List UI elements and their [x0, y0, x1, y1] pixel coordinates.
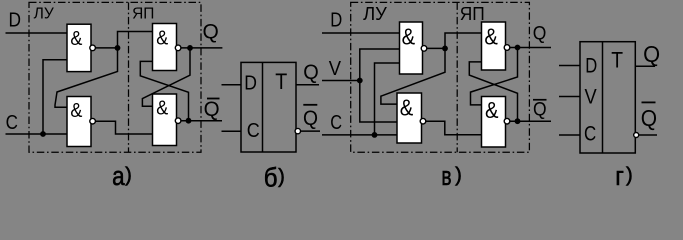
wire junction down diagonal to gate D1.2 input (a)	[55, 48, 118, 107]
svg-text:): )	[278, 166, 285, 188]
svg-text:D: D	[330, 8, 342, 31]
dashed box LU/YaP circuit v	[351, 2, 530, 152]
svg-text:V: V	[585, 85, 598, 109]
svg-text:&: &	[70, 28, 83, 50]
wire gate D1.2 output to gate D2.2 input (v)	[426, 121, 482, 135]
node Qbar (g)	[641, 102, 657, 132]
svg-text:T: T	[275, 69, 287, 94]
wire junction up to gate D2.1 input (v)	[445, 33, 482, 48]
junction C branch (v)	[372, 132, 378, 138]
wire C to gate D1.1 input 3 (v)	[375, 63, 400, 135]
wire junction down diagonal to gate D1.2 input (v)	[381, 48, 445, 104]
svg-text:D: D	[9, 9, 22, 32]
wire D input (a)	[6, 32, 68, 34]
dashed divider LU/YaP circuit v	[456, 2, 458, 152]
junction Qbar (v)	[515, 118, 521, 124]
svg-text:): )	[455, 165, 462, 187]
node Qbar (a)	[204, 97, 220, 121]
wire gate D1.1 output to junction (v)	[427, 47, 445, 49]
svg-text:Q: Q	[303, 60, 319, 84]
dashed box LU/YaP circuit a	[29, 2, 201, 152]
wire junction up to gate D2.1 input (a)	[118, 32, 153, 48]
nand gate D1.2 (v, LU bottom)	[397, 93, 426, 143]
wire Qbar cross-coupling to gate D2.1 input (a)	[140, 61, 188, 120]
svg-text:V: V	[329, 57, 342, 80]
svg-text:Q: Q	[204, 97, 220, 121]
svg-text:а: а	[112, 161, 125, 191]
svg-text:&: &	[485, 97, 499, 123]
svg-text:&: &	[70, 100, 83, 122]
wire gate D2.2 output to Qbar (v)	[510, 120, 551, 122]
wire Qbar output stub (b)	[301, 130, 321, 132]
wire Q cross-coupling to gate D2.2 input (a)	[142, 48, 190, 106]
svg-text:Q: Q	[533, 23, 547, 45]
nand gate D2.1 (a, YaP top)	[153, 24, 181, 71]
svg-text:T: T	[611, 48, 623, 73]
svg-text:&: &	[156, 28, 169, 50]
wire gate D2.2 output to Qbar (a)	[181, 120, 222, 122]
nand gate D2.2 (v, YaP bottom)	[482, 97, 510, 148]
svg-text:б: б	[264, 162, 278, 192]
junction gate D1.1 output (a)	[115, 45, 121, 51]
svg-text:ЯП: ЯП	[460, 3, 485, 24]
junction Qbar (a)	[186, 118, 192, 124]
svg-text:D: D	[585, 53, 597, 77]
wire gate D1.2 output to gate D2.2 input (a)	[95, 121, 152, 134]
nand gate D2.1 (v, YaP top)	[482, 22, 510, 70]
node Qbar (v)	[533, 99, 547, 121]
wire D input stub (g)	[559, 65, 580, 67]
wire Q output stub (b)	[296, 84, 319, 86]
junction C branch (a)	[40, 131, 46, 137]
svg-text:ЛУ: ЛУ	[363, 3, 387, 24]
wire Qbar cross-coupling to gate D2.1 input (v)	[469, 62, 517, 121]
svg-text:&: &	[156, 97, 169, 119]
svg-text:): )	[626, 165, 633, 187]
nand gate D1.1 (a, LU top)	[67, 24, 95, 71]
junction Q (a)	[187, 45, 193, 51]
svg-text:C: C	[247, 119, 260, 142]
svg-text:Q: Q	[303, 106, 318, 130]
svg-text:&: &	[400, 95, 414, 121]
junction V branch (v)	[357, 78, 363, 84]
dashed divider LU/YaP circuit a	[128, 2, 130, 152]
wire V input (v)	[322, 80, 360, 82]
wire C input stub (b)	[222, 130, 242, 132]
bubble Qbar output (b)	[295, 128, 300, 133]
svg-text:): )	[125, 165, 132, 187]
svg-text:ЯП: ЯП	[132, 6, 154, 23]
nand gate D1.2 (a, LU bottom)	[67, 97, 95, 147]
nand gate D1.1 (v, LU top)	[400, 22, 427, 74]
wire V to gate D1.1 input 2 (v)	[360, 49, 400, 81]
flip-flop block T (b)	[241, 62, 296, 152]
wire V input stub (g)	[559, 96, 580, 98]
svg-text:&: &	[484, 24, 498, 50]
wire V to gate D1.2 input 2 (v)	[360, 81, 397, 123]
wire gate D1.1 output to junction (a)	[95, 47, 117, 49]
wire gate D2.1 output to Q (v)	[510, 47, 551, 49]
nand gate D2.2 (a, YaP bottom)	[153, 94, 181, 146]
wire C to gate D1.1 second input (a)	[43, 60, 67, 134]
svg-text:Q: Q	[641, 105, 657, 131]
svg-text:C: C	[6, 111, 18, 134]
svg-text:&: &	[402, 24, 416, 50]
wire D input stub (b)	[222, 84, 242, 86]
svg-text:ЛУ: ЛУ	[34, 6, 54, 23]
svg-text:Q: Q	[643, 41, 660, 67]
wire C input (a)	[6, 133, 68, 135]
svg-text:Q: Q	[533, 99, 547, 121]
junction Q (v)	[515, 45, 521, 51]
bubble Qbar output (g)	[634, 133, 639, 138]
wire Q output stub (g)	[635, 65, 655, 67]
wire C input (v)	[322, 134, 397, 136]
svg-text:C: C	[584, 122, 596, 146]
svg-text:Q: Q	[203, 20, 219, 44]
flip-flop block T (g)	[580, 42, 635, 153]
svg-text:C: C	[330, 111, 342, 134]
svg-text:в: в	[441, 161, 451, 191]
wire Q cross-coupling to gate D2.2 input (v)	[471, 48, 518, 105]
wire gate D2.1 output to Q (a)	[181, 47, 223, 49]
wire Qbar output stub (g)	[639, 134, 657, 136]
wire C input stub (g)	[559, 134, 580, 136]
wire D input (v)	[322, 32, 400, 34]
node Qbar (b)	[303, 104, 318, 130]
svg-text:D: D	[244, 71, 257, 94]
svg-text:г: г	[615, 161, 624, 191]
junction gate D1.1 output (v)	[442, 46, 448, 52]
